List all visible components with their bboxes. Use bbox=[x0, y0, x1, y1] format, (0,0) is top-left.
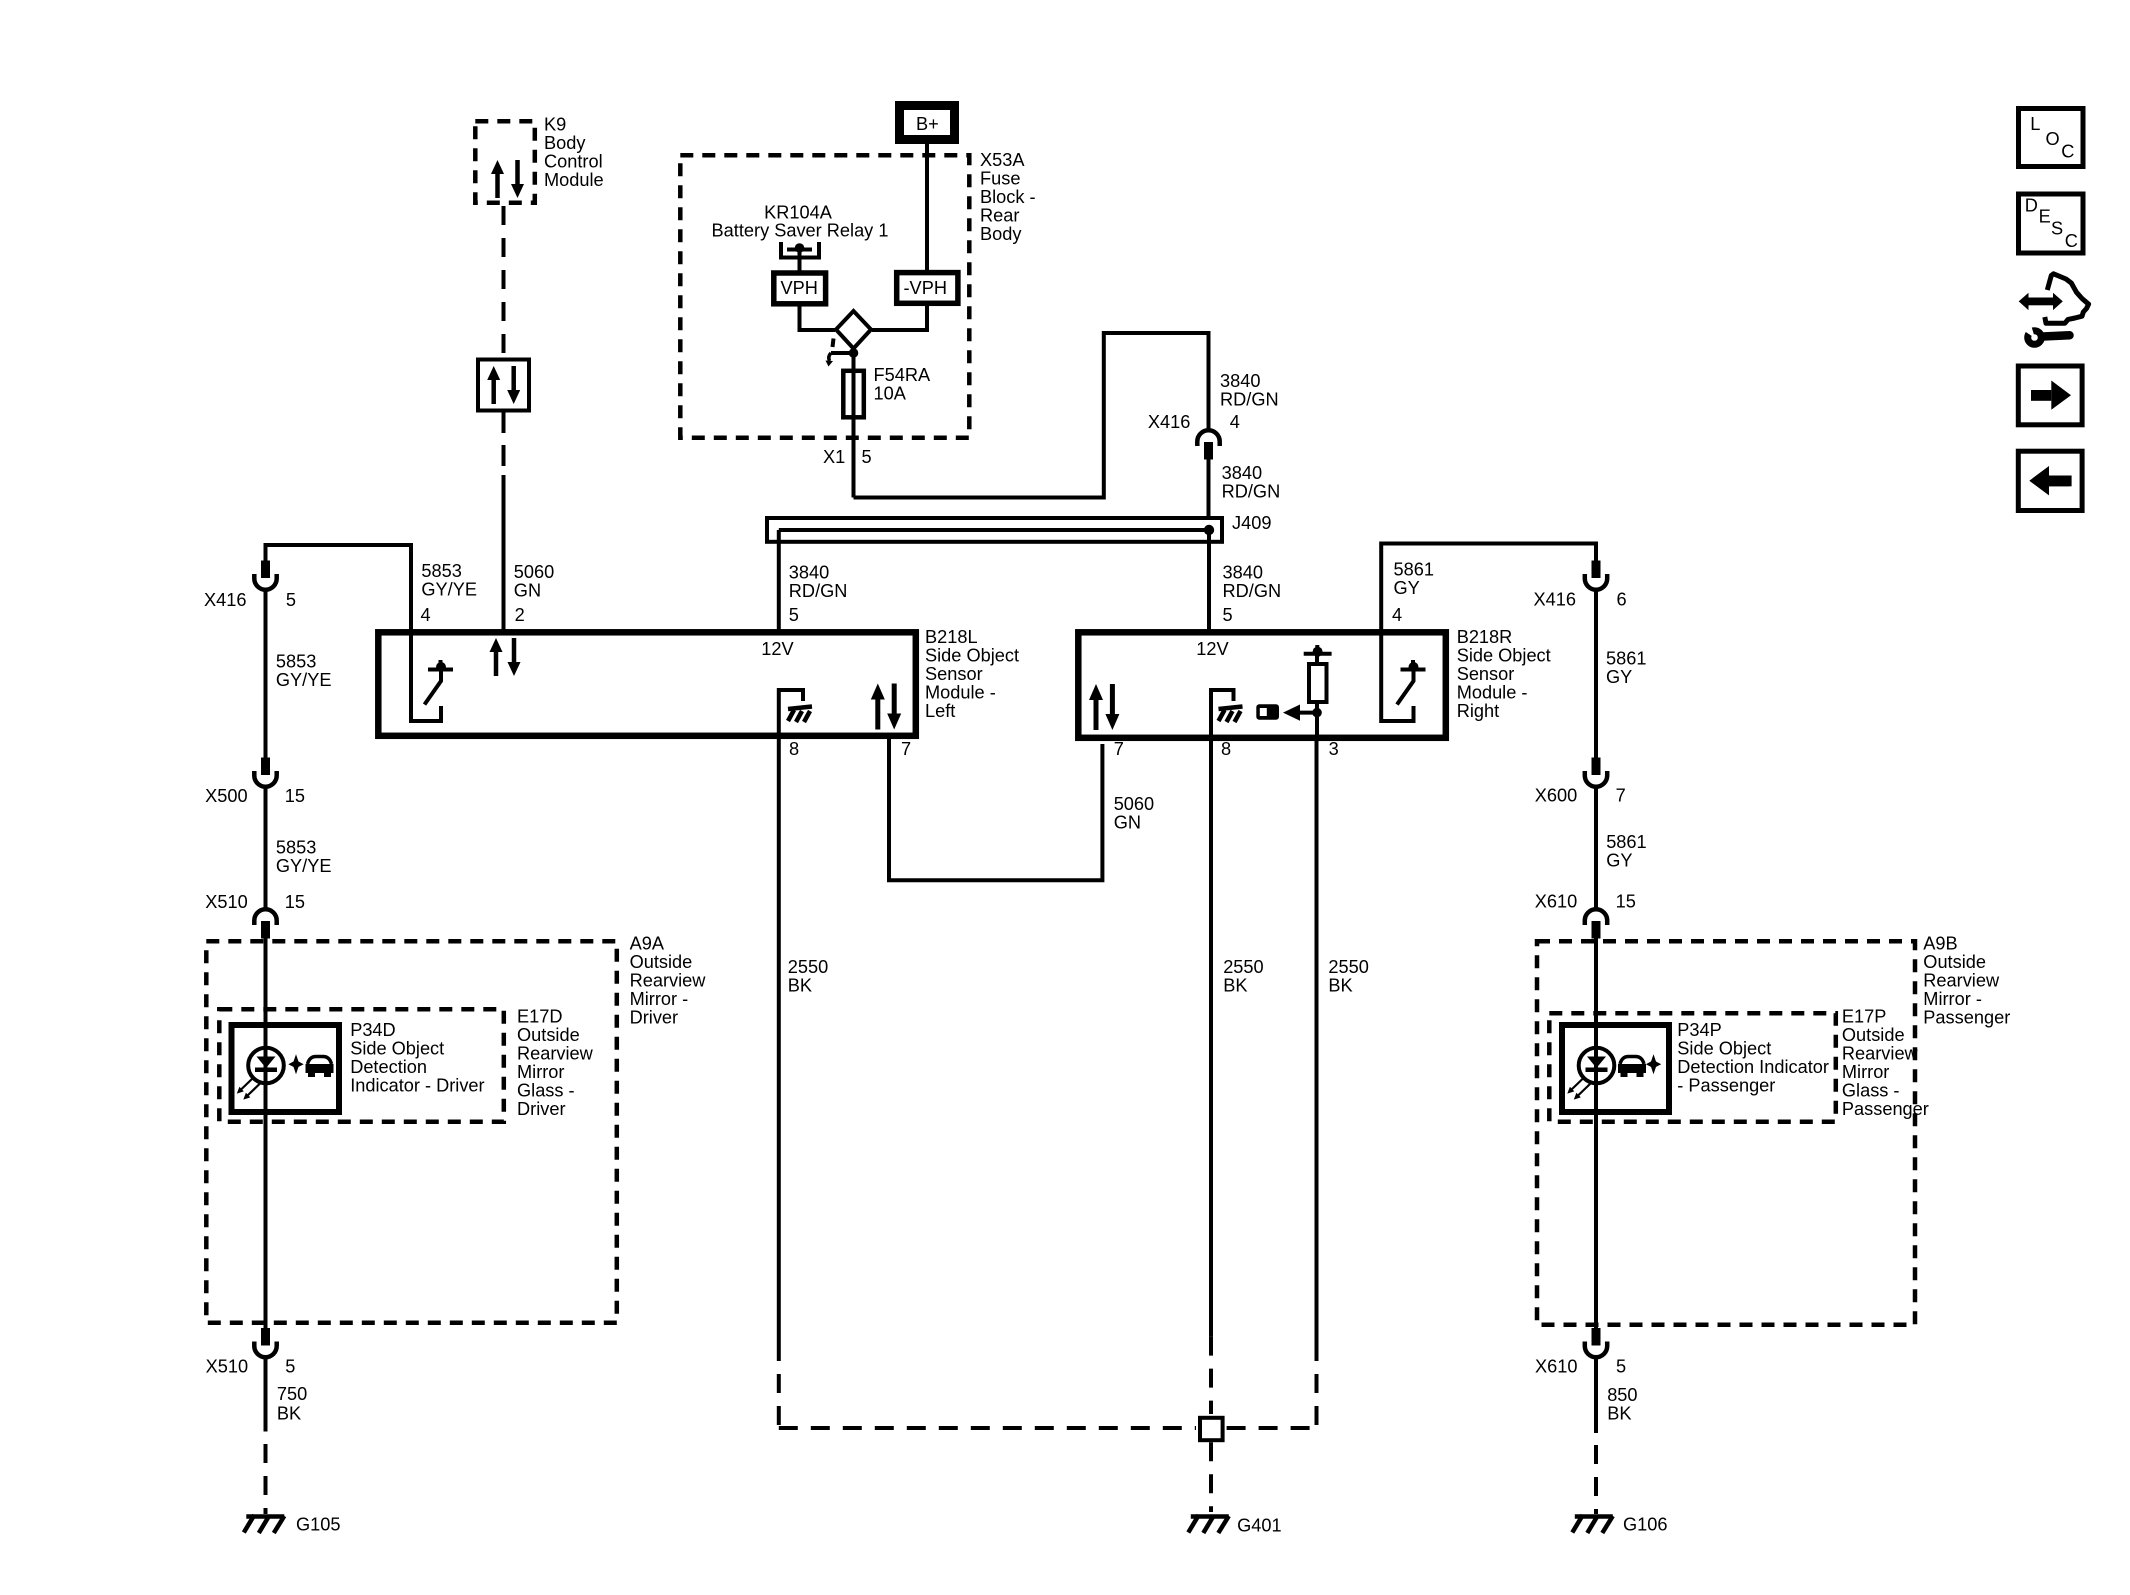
svg-text:Battery Saver Relay 1: Battery Saver Relay 1 bbox=[712, 221, 889, 241]
svg-text:Side Object: Side Object bbox=[925, 645, 1019, 665]
K9 internal bidirectional arrows bbox=[491, 160, 524, 198]
svg-text:B218R: B218R bbox=[1457, 627, 1513, 647]
svg-text:8: 8 bbox=[789, 739, 799, 759]
svg-text:2550: 2550 bbox=[1328, 957, 1368, 977]
label J409 bbox=[1232, 513, 1271, 533]
connector X500 pin 15 bbox=[254, 758, 276, 787]
labels X610 15 bbox=[1535, 892, 1636, 912]
svg-text:15: 15 bbox=[285, 892, 305, 912]
svg-text:Glass -: Glass - bbox=[517, 1080, 575, 1100]
label 5060 GN (pin 2 top) bbox=[514, 562, 554, 601]
svg-text:Rearview: Rearview bbox=[517, 1043, 594, 1063]
svg-text:Detection: Detection bbox=[350, 1057, 427, 1077]
labels X416 5 bbox=[204, 590, 296, 610]
svg-text:750: 750 bbox=[277, 1384, 307, 1404]
svg-text:P34D: P34D bbox=[350, 1020, 396, 1040]
labels X416 6 bbox=[1534, 589, 1627, 609]
svg-text:Indicator - Driver: Indicator - Driver bbox=[350, 1076, 484, 1096]
svg-text:Module -: Module - bbox=[1457, 682, 1528, 702]
svg-text:Outside: Outside bbox=[1842, 1025, 1905, 1045]
svg-text:X416: X416 bbox=[204, 590, 246, 610]
svg-text:2550: 2550 bbox=[788, 957, 828, 977]
relay contact VPH bbox=[774, 273, 826, 304]
ground G106 bbox=[1572, 1515, 1667, 1535]
mirror A9B Outside Rearview Mirror - Passenger (dashed box) bbox=[1537, 941, 1915, 1325]
wire 2550 BK from B218R pin 8 bbox=[1209, 741, 1213, 1337]
node diamond junction bbox=[836, 311, 871, 349]
car glyph (passenger) bbox=[1618, 1057, 1646, 1078]
labels X600 7 bbox=[1535, 786, 1626, 806]
svg-text:Body: Body bbox=[544, 133, 586, 153]
svg-text:X53A: X53A bbox=[980, 150, 1025, 170]
svg-text:5853: 5853 bbox=[276, 838, 316, 858]
labels X510 15 bbox=[205, 892, 305, 912]
glass E17P Outside Rearview Mirror Glass - Passenger (dashed box) bbox=[1549, 1013, 1836, 1122]
bidirectional arrows inside B218L (pin 7) bbox=[871, 684, 901, 730]
label 5861 GY (lower) bbox=[1606, 832, 1646, 871]
LED indicator lamp (driver) bbox=[237, 1048, 284, 1100]
svg-text:3: 3 bbox=[1329, 739, 1339, 759]
indicator P34D Side Object Detection Indicator - Driver (box) bbox=[232, 1025, 340, 1112]
labels X610 5 bbox=[1535, 1356, 1626, 1376]
wire 5861 GY X600 to X610 bbox=[1594, 789, 1598, 909]
connector box internal arrows bbox=[487, 366, 520, 404]
svg-text:X416: X416 bbox=[1534, 589, 1576, 609]
dashed harness left leg bbox=[777, 1342, 781, 1430]
svg-text:Mirror -: Mirror - bbox=[1923, 989, 1982, 1009]
svg-text:E17D: E17D bbox=[517, 1006, 563, 1026]
wire -VPH to diamond node bbox=[872, 304, 927, 331]
svg-text:7: 7 bbox=[1114, 739, 1124, 759]
wire VPH to diamond node bbox=[800, 307, 836, 331]
module B218R Side Object Sensor Module - Right bbox=[1078, 632, 1446, 738]
fuse F54RA 10A bbox=[843, 371, 864, 418]
ground G105 bbox=[244, 1515, 341, 1535]
svg-text:Sensor: Sensor bbox=[925, 664, 983, 684]
wire through fuse to X1 pin 5 bbox=[852, 353, 856, 498]
svg-text:X500: X500 bbox=[205, 786, 247, 806]
label pin 7 (B218L bottom) bbox=[901, 739, 911, 759]
svg-text:5853: 5853 bbox=[421, 561, 461, 581]
connector X510 pin 15 bbox=[254, 909, 276, 938]
label 5861 GY (pin 4 top) bbox=[1394, 559, 1434, 598]
label pin 8 (B218R bottom) bbox=[1221, 739, 1231, 759]
svg-text:6: 6 bbox=[1617, 589, 1627, 609]
svg-text:RD/GN: RD/GN bbox=[1222, 482, 1281, 502]
svg-text:Glass -: Glass - bbox=[1842, 1080, 1900, 1100]
svg-text:Mirror: Mirror bbox=[517, 1062, 564, 1082]
svg-text:Mirror: Mirror bbox=[1842, 1062, 1889, 1082]
ground G401 bbox=[1188, 1515, 1281, 1536]
connector X600 pin 7 bbox=[1585, 758, 1607, 787]
label E17D Outside Rearview Mirror Glass - Driver bbox=[517, 1006, 594, 1119]
label E17P Outside Rearview Mirror Glass - Passenger bbox=[1842, 1006, 1929, 1119]
svg-text:8: 8 bbox=[1221, 739, 1231, 759]
svg-text:5: 5 bbox=[285, 1356, 295, 1376]
LED indicator lamp (passenger) bbox=[1567, 1048, 1614, 1100]
svg-text:7: 7 bbox=[1616, 786, 1626, 806]
svg-text:BK: BK bbox=[277, 1404, 301, 1424]
svg-text:GN: GN bbox=[1114, 813, 1141, 833]
labels X510 5 bbox=[206, 1356, 296, 1376]
wire dashed to G105 bbox=[264, 1444, 268, 1514]
svg-text:5060: 5060 bbox=[514, 562, 554, 582]
relay KR104A coil bracket bbox=[781, 242, 819, 271]
svg-text:Rearview: Rearview bbox=[1923, 970, 2000, 990]
svg-text:GY/YE: GY/YE bbox=[421, 580, 477, 600]
sparkle star (passenger) bbox=[1646, 1054, 1661, 1074]
svg-text:5861: 5861 bbox=[1394, 559, 1434, 579]
svg-text:BK: BK bbox=[1223, 976, 1247, 996]
svg-text:Outside: Outside bbox=[630, 952, 693, 972]
wire into mirror A9A down to X510 pin 5 bbox=[264, 938, 268, 1330]
svg-text:GN: GN bbox=[514, 580, 541, 600]
svg-text:G105: G105 bbox=[296, 1515, 341, 1535]
svg-text:A9B: A9B bbox=[1923, 933, 1957, 953]
svg-text:- Passenger: - Passenger bbox=[1677, 1076, 1775, 1096]
label 5853 GY/YE (lower) bbox=[276, 838, 332, 877]
wire 5853 GY/YE from B218L pin 4 over to X416 pin 5 bbox=[266, 545, 412, 632]
svg-text:BK: BK bbox=[1328, 976, 1352, 996]
wire 5853 GY/YE X500 to X510 bbox=[264, 789, 268, 909]
svg-text:Control: Control bbox=[544, 152, 603, 172]
svg-text:Outside: Outside bbox=[517, 1025, 580, 1045]
label 2550 BK (middle) bbox=[1223, 957, 1263, 996]
svg-text:C: C bbox=[2061, 142, 2074, 162]
svg-text:X610: X610 bbox=[1535, 1356, 1577, 1376]
svg-text:Rear: Rear bbox=[980, 206, 1019, 226]
svg-text:RD/GN: RD/GN bbox=[789, 581, 848, 601]
svg-text:Body: Body bbox=[980, 224, 1022, 244]
label pin 7 (B218R bottom) bbox=[1114, 739, 1124, 759]
svg-text:5060: 5060 bbox=[1114, 794, 1154, 814]
svg-text:Right: Right bbox=[1457, 701, 1499, 721]
connector X1 pin 5 labels bbox=[823, 447, 872, 467]
legend box LOC bbox=[2019, 109, 2084, 167]
svg-text:O: O bbox=[2046, 129, 2060, 149]
svg-text:12V: 12V bbox=[1196, 639, 1229, 659]
svg-text:Detection Indicator: Detection Indicator bbox=[1677, 1057, 1829, 1077]
wire B+ to -VPH bbox=[925, 144, 929, 270]
svg-text:X510: X510 bbox=[206, 1356, 248, 1376]
svg-text:S: S bbox=[2051, 219, 2063, 239]
svg-text:Mirror -: Mirror - bbox=[630, 989, 689, 1009]
dashed harness bottom right run bbox=[1227, 1426, 1317, 1430]
wire 5853 GY/YE X416 to X500 bbox=[264, 592, 268, 759]
svg-text:3840: 3840 bbox=[1223, 563, 1263, 583]
in-line connector box with arrows bbox=[478, 360, 529, 411]
wire dashed to G106 bbox=[1594, 1445, 1598, 1514]
svg-text:KR104A: KR104A bbox=[764, 202, 833, 222]
connector X610 pin 5 bbox=[1585, 1328, 1607, 1357]
svg-text:5861: 5861 bbox=[1606, 649, 1646, 669]
svg-text:15: 15 bbox=[285, 786, 305, 806]
svg-text:A9A: A9A bbox=[630, 933, 665, 953]
label B218L Side Object Sensor Module - Left bbox=[925, 627, 1019, 721]
svg-text:K9: K9 bbox=[544, 115, 566, 135]
dashed harness middle leg bbox=[1209, 1337, 1213, 1414]
wire 5060 GN from B218L pin 7 to B218R pin 7 bbox=[889, 739, 1102, 880]
svg-text:B+: B+ bbox=[916, 114, 939, 134]
svg-text:5: 5 bbox=[1616, 1356, 1626, 1376]
dashed harness right leg bbox=[1315, 1342, 1319, 1430]
relay contact -VPH bbox=[897, 273, 958, 304]
connector X416 pin 4 (inline) bbox=[1197, 430, 1219, 459]
svg-text:GY: GY bbox=[1606, 667, 1632, 687]
wire J409 right drop 3840 RD/GN to B218R pin 5 bbox=[1207, 530, 1211, 632]
label 2550 BK (left) bbox=[788, 957, 828, 996]
label A9B Outside Rearview Mirror - Passenger bbox=[1923, 933, 2010, 1027]
label 750 BK bbox=[277, 1384, 307, 1424]
wire 5861 GY X416 to X600 bbox=[1594, 592, 1598, 759]
internal ground inside B218L (pin 8) bbox=[779, 690, 812, 736]
labels X500 15 bbox=[205, 786, 305, 806]
svg-text:X1: X1 bbox=[823, 447, 845, 467]
legend box back arrow bbox=[2018, 451, 2082, 510]
wire 5060 GN from connector box to B218L pin 2 bbox=[502, 413, 506, 633]
connector X416 pin 4 labels bbox=[1148, 412, 1240, 432]
connector X416 pin 6 bbox=[1585, 561, 1607, 590]
svg-text:3840: 3840 bbox=[789, 563, 829, 583]
module B218L Side Object Sensor Module - Left bbox=[378, 632, 916, 736]
label pin 8 (B218L bottom) bbox=[789, 739, 799, 759]
switch inside B218L (pin 4) bbox=[411, 632, 453, 721]
svg-text:5: 5 bbox=[286, 590, 296, 610]
glass E17D Outside Rearview Mirror Glass - Driver (dashed box) bbox=[219, 1009, 504, 1122]
wire 750 BK bbox=[264, 1359, 268, 1432]
sparkle star (driver) bbox=[288, 1054, 303, 1074]
label B218R Side Object Sensor Module - Right bbox=[1457, 627, 1551, 721]
svg-text:C: C bbox=[2065, 231, 2078, 251]
label 5853 GY/YE (mid) bbox=[276, 651, 332, 690]
label 5861 GY (mid) bbox=[1606, 649, 1646, 688]
svg-text:RD/GN: RD/GN bbox=[1223, 581, 1282, 601]
svg-text:J409: J409 bbox=[1232, 513, 1271, 533]
label KR104A Battery Saver Relay 1 bbox=[712, 202, 889, 240]
label 850 BK bbox=[1607, 1385, 1637, 1424]
svg-text:Rearview: Rearview bbox=[630, 970, 707, 990]
svg-text:7: 7 bbox=[901, 739, 911, 759]
svg-text:Left: Left bbox=[925, 701, 955, 721]
label 3840 RD/GN 5 (right drop) bbox=[1223, 563, 1282, 625]
svg-text:Fuse: Fuse bbox=[980, 169, 1020, 189]
fuse block X53A (dashed box) bbox=[680, 155, 969, 438]
svg-text:5853: 5853 bbox=[276, 651, 316, 671]
module K9 Body Control Module (dashed box) bbox=[475, 121, 535, 203]
svg-text:4: 4 bbox=[421, 605, 431, 625]
wire into mirror A9B down to X610 pin 5 bbox=[1594, 938, 1598, 1330]
svg-text:Module: Module bbox=[544, 170, 604, 190]
wire J409 left drop 3840 RD/GN to B218L pin 5 bbox=[777, 530, 781, 632]
svg-text:GY: GY bbox=[1394, 578, 1420, 598]
svg-text:RD/GN: RD/GN bbox=[1220, 390, 1279, 410]
svg-text:Block -: Block - bbox=[980, 187, 1036, 207]
bidirectional arrows inside B218L (pin 2) bbox=[490, 638, 521, 676]
label 5060 GN (bottom) bbox=[1114, 794, 1154, 833]
legend icon car with arrows and wrench bbox=[2019, 274, 2089, 345]
svg-text:5: 5 bbox=[789, 605, 799, 625]
svg-text:L: L bbox=[2030, 114, 2040, 134]
label 3840 RD/GN 5 (left drop) bbox=[789, 563, 848, 625]
wire X416 pin4 to J409 bbox=[1207, 459, 1211, 518]
svg-text:850: 850 bbox=[1607, 1385, 1637, 1405]
svg-text:5: 5 bbox=[862, 447, 872, 467]
svg-text:X416: X416 bbox=[1148, 412, 1190, 432]
mirror A9A Outside Rearview Mirror - Driver (dashed box) bbox=[206, 941, 617, 1323]
svg-text:P34P: P34P bbox=[1677, 1020, 1722, 1040]
label 5853 GY/YE (pin 4 top) bbox=[421, 561, 477, 600]
label 2550 BK (right) bbox=[1328, 957, 1368, 996]
svg-text:Driver: Driver bbox=[517, 1099, 566, 1119]
svg-text:X610: X610 bbox=[1535, 892, 1577, 912]
svg-text:Outside: Outside bbox=[1923, 952, 1986, 972]
svg-text:5861: 5861 bbox=[1606, 832, 1646, 852]
svg-text:D: D bbox=[2025, 195, 2038, 215]
svg-text:4: 4 bbox=[1230, 412, 1240, 432]
switch hook at diamond output bbox=[826, 339, 852, 367]
legend box DESC bbox=[2019, 194, 2084, 253]
label P34P Side Object Detection Indicator - Passenger bbox=[1677, 1020, 1829, 1096]
svg-text:Passenger: Passenger bbox=[1842, 1099, 1929, 1119]
svg-text:Driver: Driver bbox=[630, 1007, 679, 1027]
wire 5861 GY from B218R pin 4 over to X416 pin 6 bbox=[1381, 544, 1596, 633]
label 12V (B218L) bbox=[761, 639, 794, 659]
splice junction dot J409 bbox=[1204, 525, 1214, 535]
connector X510 pin 5 bbox=[254, 1328, 276, 1357]
splice box at G401 bbox=[1200, 1418, 1223, 1440]
splice pack J409 (bus bar) bbox=[767, 518, 1222, 542]
svg-text:X510: X510 bbox=[205, 892, 247, 912]
svg-text:Module -: Module - bbox=[925, 682, 996, 702]
svg-text:GY/YE: GY/YE bbox=[276, 670, 332, 690]
svg-text:4: 4 bbox=[1392, 605, 1402, 625]
wire 850 BK bbox=[1594, 1359, 1598, 1433]
LED output glyph inside B218R (pin 3) bbox=[1256, 704, 1321, 720]
svg-text:BK: BK bbox=[788, 976, 812, 996]
switch inside B218R (pin 4) bbox=[1381, 632, 1425, 721]
legend box forward arrow bbox=[2018, 366, 2082, 425]
label 12V (B218R) bbox=[1196, 639, 1229, 659]
bidirectional arrows inside B218R (pin 7) bbox=[1089, 684, 1119, 730]
svg-text:-VPH: -VPH bbox=[904, 278, 947, 298]
power feed B+ bbox=[900, 106, 955, 140]
svg-text:Passenger: Passenger bbox=[1923, 1007, 2010, 1027]
svg-text:F54RA: F54RA bbox=[874, 365, 931, 385]
svg-text:GY/YE: GY/YE bbox=[276, 856, 332, 876]
label pin 3 (B218R bottom) bbox=[1329, 739, 1339, 759]
wire dashed from K9 to in-line connector bbox=[502, 206, 506, 357]
svg-text:X600: X600 bbox=[1535, 786, 1577, 806]
svg-text:15: 15 bbox=[1616, 892, 1636, 912]
svg-text:12V: 12V bbox=[761, 639, 794, 659]
dashed wire below splice to G401 bbox=[1209, 1442, 1213, 1512]
label F54RA 10A bbox=[874, 365, 931, 404]
connector X610 pin 15 bbox=[1585, 909, 1607, 938]
label 3840 RD/GN (above X416) bbox=[1220, 371, 1279, 410]
svg-text:3840: 3840 bbox=[1220, 371, 1260, 391]
svg-text:2: 2 bbox=[515, 605, 525, 625]
label pin 2 (B218L) bbox=[515, 605, 525, 625]
indicator P34P Side Object Detection Indicator - Passenger (box) bbox=[1562, 1025, 1669, 1112]
connector X416 pin 5 bbox=[254, 561, 276, 590]
svg-text:10A: 10A bbox=[874, 384, 907, 404]
car glyph (driver) bbox=[306, 1057, 334, 1078]
wire 3840 RD/GN routing up to X416 pin 4 bbox=[854, 333, 1209, 498]
label pin 4 (B218R top) bbox=[1392, 605, 1402, 625]
svg-text:E17P: E17P bbox=[1842, 1006, 1887, 1026]
svg-text:Side Object: Side Object bbox=[1677, 1039, 1771, 1059]
dashed harness bottom left run bbox=[779, 1426, 1196, 1430]
svg-text:VPH: VPH bbox=[781, 278, 818, 298]
label K9 Body Control Module bbox=[544, 115, 604, 191]
label A9A Outside Rearview Mirror - Driver bbox=[630, 933, 707, 1027]
wire 2550 BK from B218R pin 3 bbox=[1315, 741, 1319, 1342]
label X53A Fuse Block - Rear Body bbox=[980, 150, 1036, 244]
label 3840 RD/GN (below X416) bbox=[1222, 463, 1281, 502]
svg-text:2550: 2550 bbox=[1223, 957, 1263, 977]
internal ground inside B218R (pin 8) bbox=[1211, 690, 1243, 738]
svg-text:Sensor: Sensor bbox=[1457, 664, 1515, 684]
svg-text:5: 5 bbox=[1223, 605, 1233, 625]
svg-text:B218L: B218L bbox=[925, 627, 978, 647]
svg-text:Side Object: Side Object bbox=[350, 1039, 444, 1059]
resistor chain inside B218R (pin 3) bbox=[1304, 645, 1332, 738]
wire 2550 BK from B218L pin 8 bbox=[777, 739, 781, 1342]
svg-text:Side Object: Side Object bbox=[1457, 645, 1551, 665]
svg-text:3840: 3840 bbox=[1222, 463, 1262, 483]
svg-text:G401: G401 bbox=[1237, 1516, 1282, 1536]
svg-text:GY: GY bbox=[1606, 850, 1632, 870]
label P34D Side Object Detection Indicator - Driver bbox=[350, 1020, 484, 1096]
junction dot below diamond bbox=[849, 348, 859, 358]
svg-text:G106: G106 bbox=[1623, 1515, 1668, 1535]
svg-text:E: E bbox=[2039, 206, 2051, 226]
svg-text:BK: BK bbox=[1607, 1403, 1631, 1423]
label pin 4 (B218L) bbox=[421, 605, 431, 625]
svg-text:Rearview: Rearview bbox=[1842, 1043, 1919, 1063]
